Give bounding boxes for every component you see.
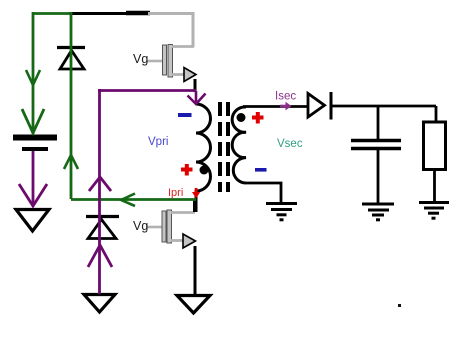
green current arrow (small, battery riser) — [26, 70, 40, 85]
diode D2 triangle — [88, 220, 116, 239]
transistor Q1 source arrow — [184, 68, 196, 82]
transistor Q2 gate bar — [162, 211, 166, 242]
wire Q2 source to ground — [194, 246, 197, 295]
transformer T1 secondary winding — [232, 107, 246, 183]
wire resistor bottom lead — [433, 170, 436, 203]
ground (earth) capacitor — [362, 204, 394, 220]
resistor R1 body — [424, 122, 446, 170]
purple current arrow (up, above D2) — [89, 177, 111, 191]
wire green loop: top segment — [33, 12, 70, 15]
wire cap bottom lead — [377, 150, 380, 203]
transistor Q1 channel bar — [168, 45, 173, 78]
ground (triangle) below battery — [16, 210, 49, 232]
svg-text:Vpri: Vpri — [148, 136, 168, 148]
diode D3 (output rectifier) triangle — [308, 94, 325, 118]
wire top rail grey segment — [148, 12, 195, 15]
ground (triangle) Q2 source — [177, 296, 210, 314]
green current arrow (large, into battery) — [22, 109, 44, 133]
svg-text:Isec: Isec — [275, 91, 296, 103]
purple arrow Isec (right) — [280, 102, 292, 111]
transistor Q1 source lead — [172, 73, 184, 76]
green current arrow (up, diode branch) — [64, 155, 78, 169]
purple arrow into primary top — [188, 91, 206, 104]
transformer T1 primary winding — [196, 104, 211, 191]
transistor Q2 source arrow — [183, 234, 196, 248]
transistor Q1 drain lead — [172, 45, 194, 48]
ground (triangle) below clamp diode D2 — [84, 295, 115, 313]
svg-text:Vg: Vg — [133, 52, 148, 66]
wire Q1 source to primary node — [194, 79, 197, 92]
ground (earth) secondary — [266, 204, 297, 220]
red arrow Ipri (down) — [192, 188, 200, 199]
wire purple loop: left edge through D2 — [98, 89, 101, 294]
wire secondary top to diode D3 — [243, 105, 308, 108]
wire purple: battery to ground — [32, 151, 35, 206]
wire grey riser to Q1 drain — [192, 12, 195, 47]
diode D1 triangle — [60, 51, 84, 70]
label plus (secondary top) — [252, 112, 264, 124]
transistor Q2 drain lead — [171, 211, 195, 214]
transformer T1 secondary polarity dot — [237, 113, 246, 122]
wire cap top lead — [377, 106, 380, 139]
capacitor C1 plates — [351, 139, 401, 142]
diode D3 cathode bar — [330, 92, 333, 120]
transformer T1 core dashed lines — [218, 102, 222, 192]
wire primary bottom to Q2 drain — [195, 190, 198, 212]
transistor Q2 (lower MOSFET) gate lead — [146, 226, 162, 229]
wire secondary bottom — [246, 183, 281, 203]
purple current arrow (down, into ground) — [19, 184, 47, 206]
wire green loop: bottom horizontal — [71, 198, 196, 201]
svg-text:Vg: Vg — [133, 219, 148, 233]
diode D1 (clamp, upper left) cathode bar — [57, 46, 85, 49]
label plus (primary bottom) — [181, 164, 193, 176]
battery V1 top plate — [13, 135, 57, 141]
battery V1 bottom plate — [22, 147, 48, 151]
transistor Q2 channel bar — [167, 210, 172, 243]
label minus (secondary bottom) — [255, 168, 267, 172]
green current arrow (left, bottom horizontal) — [121, 194, 135, 207]
wire top rail black segment — [69, 12, 150, 15]
transformer T1 primary polarity dot — [200, 166, 209, 175]
wire purple loop: top edge — [98, 89, 196, 92]
wire output rail — [332, 105, 436, 108]
wire green loop: diode branch riser — [70, 12, 73, 199]
svg-text:Vsec: Vsec — [277, 138, 303, 150]
ground (earth) resistor — [419, 203, 449, 219]
wire green loop: battery riser — [32, 12, 35, 134]
purple current arrow (up, below D2) — [88, 245, 112, 267]
wire resistor top lead — [435, 106, 438, 122]
svg-text:Ipri: Ipri — [168, 187, 183, 199]
transistor Q1 gate bar — [163, 45, 167, 75]
transistor Q2 source lead — [171, 239, 183, 242]
wire Q2 drain riser — [193, 199, 196, 212]
diode D2 (clamp, lower) cathode bar — [86, 215, 119, 218]
transistor Q1 (upper MOSFET) gate lead — [147, 60, 163, 63]
period dot bottom right — [398, 304, 401, 307]
label minus (primary top) — [178, 113, 192, 117]
